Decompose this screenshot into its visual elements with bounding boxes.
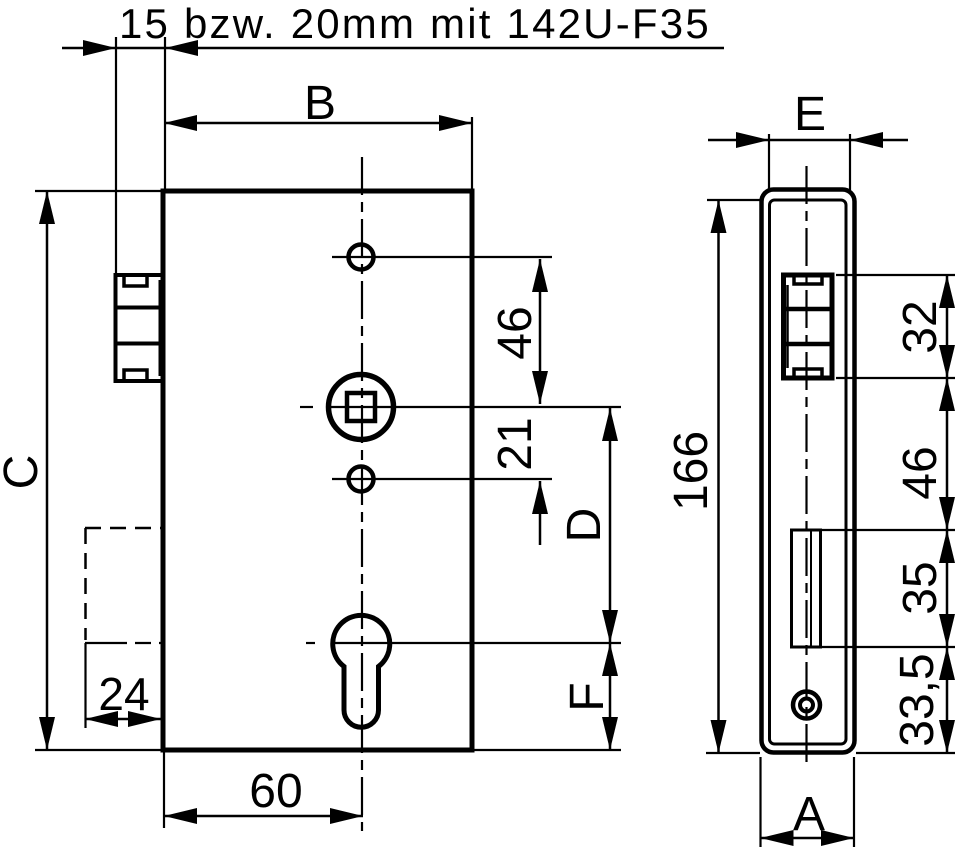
arrowhead 21 up outside: [532, 481, 548, 514]
arrowhead 166 down: [711, 720, 727, 753]
arrowhead B right: [439, 115, 472, 131]
extension line A left: [759, 757, 761, 847]
extension line C bottom: [35, 749, 163, 751]
extension line 60 left: [163, 752, 165, 828]
dimension line F: [609, 643, 612, 750]
extension line 166 top: [707, 199, 763, 201]
arrowhead D down: [602, 610, 618, 643]
dimension line 24: [85, 718, 161, 721]
screw hole side view inner: [800, 699, 813, 712]
dimension line 46 front: [539, 259, 542, 404]
lock case front view outline: [163, 191, 472, 750]
center dash left of cylinder: [306, 642, 315, 644]
extension line latch bottom: [836, 377, 955, 379]
follower circle with square spindle hole: [329, 375, 394, 440]
arrowhead D up: [602, 408, 618, 441]
screw hole side view outer: [793, 692, 820, 719]
extension line C top: [35, 190, 163, 192]
extension line slot top: [822, 529, 955, 531]
arrowhead A left: [761, 830, 794, 846]
hidden dashed horizontal line: [85, 527, 163, 530]
dimension line E: [708, 139, 908, 142]
arrowhead 166 up: [711, 200, 727, 233]
svg-text:46: 46: [489, 306, 542, 359]
svg-text:46: 46: [894, 446, 947, 499]
dimension line D: [609, 408, 612, 643]
faceplate side view outer: [762, 190, 855, 753]
extension line 166 bottom: [706, 752, 760, 754]
arrowhead C up: [39, 191, 55, 224]
svg-text:D: D: [558, 508, 611, 543]
dimension line B: [164, 122, 472, 125]
arrowhead 35 down: [939, 614, 955, 647]
arrowhead 24 right: [128, 711, 161, 727]
faceplate side view inner: [770, 200, 847, 744]
arrowhead 46 up: [532, 259, 548, 292]
extension line at x=116: [115, 37, 117, 275]
svg-text:35: 35: [894, 561, 947, 614]
center line through follower: [327, 406, 621, 408]
arrowhead C down: [39, 717, 55, 750]
arrowhead B left: [164, 115, 197, 131]
latch bolt front view outer box: [116, 275, 164, 381]
square spindle hole: [347, 393, 375, 421]
hidden line lower solid part: [84, 643, 86, 728]
svg-text:15 bzw. 20mm mit 142U-F35: 15 bzw. 20mm mit 142U-F35: [119, 0, 711, 47]
latch side divider upper: [783, 307, 832, 312]
arrowhead 35 up: [939, 530, 955, 563]
hidden center line segment: [85, 642, 161, 644]
svg-text:E: E: [794, 88, 826, 141]
svg-text:32: 32: [894, 300, 947, 353]
vertical center line front view: [361, 157, 363, 831]
svg-text:F: F: [561, 682, 614, 711]
extension line E left: [768, 134, 770, 192]
vertical center line side view: [805, 166, 807, 768]
svg-text:60: 60: [249, 765, 302, 818]
tail line 21: [539, 481, 542, 545]
extension line B right: [471, 117, 473, 191]
arrowhead right-pointing at x=116: [83, 40, 116, 56]
center line through cylinder: [331, 642, 621, 644]
dimension line A: [761, 837, 855, 840]
arrowhead 46 side down: [939, 497, 955, 530]
arrowhead 46 down: [532, 371, 548, 404]
extension line E right: [849, 134, 851, 192]
svg-text:21: 21: [489, 417, 542, 470]
arrowhead 33,5 down: [939, 720, 955, 753]
extension line plate bottom right: [856, 752, 955, 754]
latch bolt side view outer box: [784, 275, 833, 378]
top screw hole: [349, 245, 374, 270]
arrowhead E left-pointing: [850, 132, 883, 148]
svg-text:A: A: [793, 788, 825, 841]
svg-text:C: C: [0, 455, 48, 490]
latch side top notch: [794, 277, 822, 284]
arrowhead A right: [821, 830, 854, 846]
arrowhead 32 down: [939, 345, 955, 378]
arrowhead F up: [602, 643, 618, 676]
arrowhead 24 left: [85, 711, 118, 727]
arrowhead F down: [602, 717, 618, 750]
hidden dashed vertical line: [84, 528, 87, 640]
latch bolt bevel line: [159, 280, 161, 376]
arrowhead left-pointing at x=165: [165, 40, 198, 56]
center line through top hole: [332, 256, 552, 258]
arrowhead 32 up: [939, 275, 955, 308]
latch side bottom notch: [794, 369, 822, 376]
latch bolt top notch: [124, 277, 147, 286]
extension line latch top: [836, 274, 955, 276]
dimension line 60: [164, 815, 363, 818]
svg-text:24: 24: [98, 668, 149, 720]
latch side divider lower: [783, 342, 832, 347]
arrowhead 33,5 up: [939, 647, 955, 680]
svg-text:166: 166: [665, 431, 718, 511]
dimension line 15/20mm horizontal: [62, 47, 724, 50]
center line through lower hole: [332, 478, 552, 480]
dimension line C: [46, 191, 49, 750]
svg-text:33,5: 33,5: [891, 653, 944, 746]
dimension line 166: [717, 200, 720, 753]
arrowhead 60 left: [164, 808, 197, 824]
euro profile cylinder hole: [333, 615, 390, 727]
extension line A right: [853, 757, 855, 847]
latch bolt divider lower: [116, 342, 164, 346]
extension line F bottom: [472, 749, 621, 751]
deadbolt slot side view: [792, 530, 821, 647]
dimension chain line right: [946, 275, 949, 753]
latch bolt divider upper: [116, 306, 164, 310]
deadbolt slot inner line: [810, 531, 812, 646]
arrowhead 60 right: [330, 808, 363, 824]
arrowhead E right-pointing: [736, 132, 769, 148]
latch bolt bottom notch: [124, 370, 147, 379]
arrowhead 46 side up: [939, 378, 955, 411]
center dash left of follower: [300, 406, 313, 408]
extension line slot bottom: [822, 646, 955, 648]
latch side inner line: [786, 285, 789, 368]
extension line at x=165: [164, 37, 166, 191]
lower screw hole: [349, 467, 374, 492]
